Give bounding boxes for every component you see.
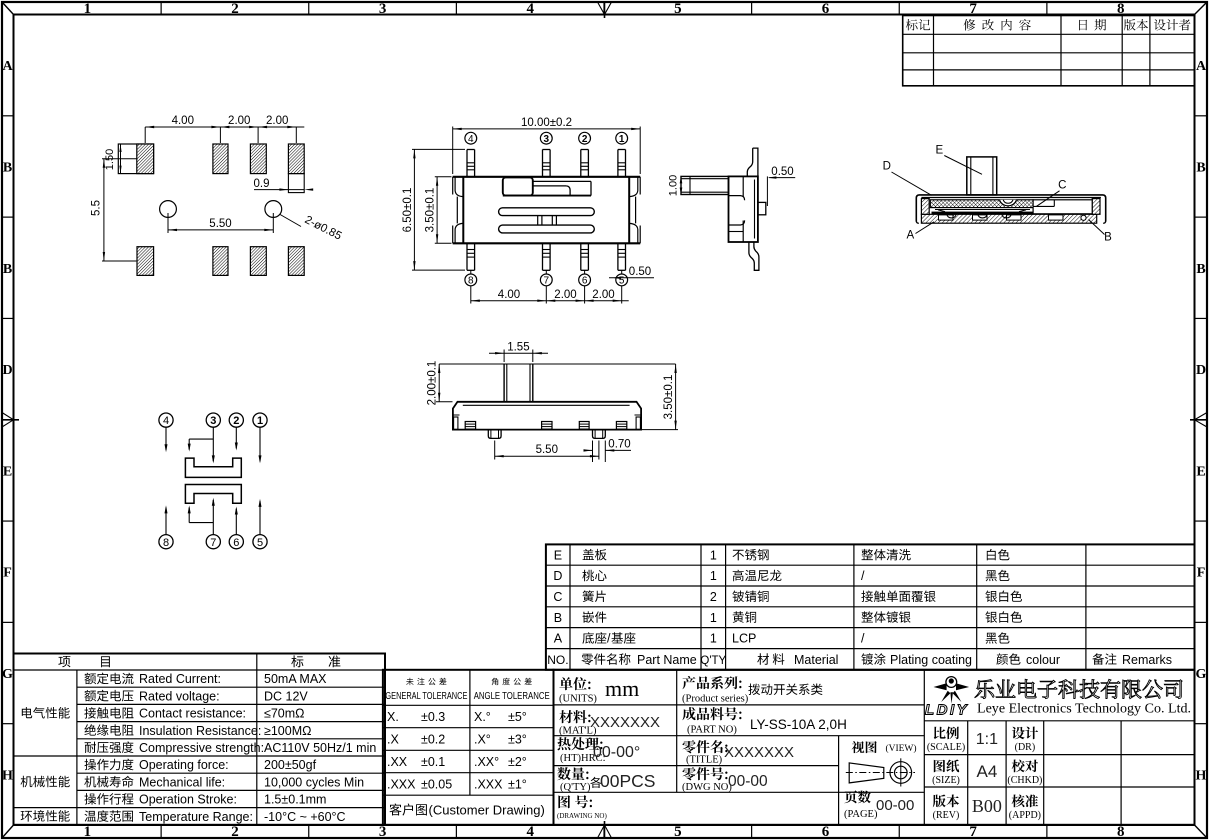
schematic wire pin5 [259, 499, 262, 535]
tolerance header: general [385, 678, 467, 702]
pin 8 (bottom lead) [467, 243, 475, 270]
svg-text:8: 8 [163, 537, 169, 549]
slot bridges [538, 216, 557, 226]
svg-text:B: B [3, 160, 12, 175]
svg-text:(CHKD): (CHKD) [1007, 775, 1042, 786]
schematic pin balloon 5 [253, 535, 267, 549]
svg-text:00-00: 00-00 [728, 773, 768, 790]
performance header [58, 655, 340, 667]
svg-text:Leye Electronics Technology Co: Leye Electronics Technology Co. Ltd. [977, 701, 1191, 716]
svg-text:7: 7 [210, 537, 216, 549]
svg-text:Material: Material [794, 653, 838, 667]
svg-text:4: 4 [526, 824, 534, 840]
base side wall right (hatched) [1092, 199, 1100, 215]
cell UNITS [559, 676, 639, 705]
svg-text:E: E [1196, 464, 1205, 479]
svg-text:C: C [553, 590, 562, 604]
svg-text:±0.1: ±0.1 [421, 755, 445, 769]
slider knob (top view) [503, 177, 533, 195]
svg-text:B: B [554, 611, 562, 625]
svg-text:3: 3 [379, 824, 387, 840]
svg-text:1: 1 [619, 134, 625, 145]
dimension 10.00&#177;0.2 (body width) [453, 117, 641, 174]
svg-text:1.00: 1.00 [668, 175, 680, 196]
dimension 3.50&#177;0.1 (body height) [424, 177, 451, 244]
terminal bottom (side, gull bend) [749, 242, 759, 270]
svg-text:(VIEW): (VIEW) [885, 743, 916, 754]
pin 3 (top lead) [543, 150, 551, 177]
schematic wire pin7 [188, 498, 215, 535]
svg-text:.X°: .X° [474, 733, 491, 747]
svg-text:Rated Current:: Rated Current: [139, 672, 221, 686]
front gull lead 4 [616, 422, 626, 430]
side mounting boss [758, 202, 766, 214]
svg-text:±0.2: ±0.2 [421, 733, 445, 747]
tolerance header: angle [474, 678, 550, 702]
svg-text:-10°C ~ +60°C: -10°C ~ +60°C [264, 810, 346, 824]
hole H1 [160, 201, 177, 218]
svg-text:(PART NO): (PART NO) [687, 725, 737, 736]
pin 3 number balloon [540, 132, 552, 145]
cell MATL [559, 710, 660, 736]
performance row 4 [84, 724, 311, 738]
tolerance row 3 [387, 755, 527, 769]
svg-text:(SCALE): (SCALE) [927, 742, 965, 753]
svg-text:Mechanical life:: Mechanical life: [139, 775, 225, 789]
svg-text:G: G [2, 667, 13, 682]
svg-text:50mA MAX: 50mA MAX [264, 672, 327, 686]
pad P5 bottom [137, 247, 154, 276]
performance row 2 [85, 689, 309, 703]
cell Product series [682, 676, 823, 705]
svg-text:/: / [861, 569, 865, 583]
dimension 5.50 (hole spacing) [168, 213, 273, 233]
BOM row E cover [554, 548, 1010, 562]
svg-text:Operating force:: Operating force: [139, 758, 229, 772]
svg-text:(UNITS): (UNITS) [559, 694, 597, 705]
schematic pin balloon 3 [206, 413, 220, 427]
svg-text:6: 6 [582, 276, 588, 287]
schematic wire pin2 [235, 427, 238, 450]
svg-text:AC110V 50Hz/1 min: AC110V 50Hz/1 min [264, 741, 376, 755]
label E + leader [935, 145, 982, 175]
svg-text:0.70: 0.70 [608, 439, 630, 451]
logo cell [925, 677, 969, 719]
svg-text:1: 1 [710, 548, 717, 562]
svg-text:2: 2 [231, 1, 239, 17]
svg-text:3: 3 [379, 1, 387, 17]
svg-text:A: A [2, 59, 13, 74]
cell CHKD [1007, 760, 1042, 787]
logo Chinese company name [975, 679, 1182, 698]
svg-text:(DWG NO): (DWG NO) [682, 782, 732, 793]
svg-text:2: 2 [582, 134, 588, 145]
pad P1 top (with white extension) [118, 144, 153, 174]
svg-text:Temperature Range:: Temperature Range: [139, 810, 253, 824]
svg-text:X.: X. [387, 710, 399, 724]
extension line knob top level [439, 363, 675, 365]
actuator knob (front) [504, 364, 533, 402]
revision header 设计者 [1154, 19, 1190, 31]
front gull lead 1 [465, 422, 475, 430]
dimension 0.70 (post width) [584, 439, 632, 462]
svg-text:XXXXXXX: XXXXXXX [590, 714, 660, 731]
dimension 0.9 (pad width) [254, 178, 314, 191]
dimension 2.00&#177;0.1 (front left) [427, 361, 453, 406]
svg-text:8: 8 [1117, 824, 1125, 840]
title block [554, 670, 1195, 825]
contact slot 2 [499, 225, 595, 233]
switch body (side profile) [729, 176, 758, 242]
svg-text:D: D [2, 363, 12, 378]
dimension 5.5 (row spacing, left) [91, 159, 137, 261]
dimension 0.50 (terminal offset, side) [767, 166, 795, 206]
cover (section, part D outline) [916, 195, 1105, 223]
svg-text:D: D [1196, 363, 1206, 378]
cell DWG NO [682, 767, 768, 793]
cell PART NO [682, 707, 847, 735]
svg-text:E: E [935, 145, 943, 157]
svg-text:2: 2 [233, 415, 239, 427]
svg-text:colour: colour [1026, 653, 1060, 667]
revision header 标记 [906, 19, 930, 30]
svg-text:A: A [554, 632, 563, 646]
pin 4 (top lead) [467, 150, 475, 177]
svg-text:10,000 cycles Min: 10,000 cycles Min [264, 775, 364, 789]
pad P6 bottom [213, 247, 228, 276]
label B + leader [1089, 220, 1113, 244]
svg-text:A: A [906, 230, 914, 242]
svg-text:Part Name: Part Name [637, 653, 697, 667]
svg-text:(Q'TY): (Q'TY) [560, 782, 591, 793]
svg-text:C: C [1058, 180, 1066, 192]
cell SCALE [927, 727, 998, 754]
pin 1 number balloon [616, 132, 628, 145]
dimension 1.50 (pad height) [104, 144, 122, 174]
schematic pin balloon 2 [229, 413, 243, 427]
svg-text:2.00±0.1: 2.00±0.1 [427, 361, 439, 406]
schematic wire pin4 [165, 427, 168, 452]
dimension 4.00 / 2.00 / 2.00 (pin pitch bottom) [471, 289, 629, 302]
svg-text:Plating coating: Plating coating [890, 653, 972, 667]
pin 5 number balloon [616, 274, 628, 287]
svg-text:(PAGE): (PAGE) [844, 809, 878, 820]
locating post right [593, 430, 606, 439]
end foot right [635, 415, 642, 429]
performance row 6 [85, 758, 317, 772]
svg-text:F: F [1197, 566, 1206, 581]
pin 5 (bottom lead) [618, 243, 626, 270]
svg-text:≤70mΩ: ≤70mΩ [264, 707, 305, 721]
svg-text:10.00±0.2: 10.00±0.2 [521, 117, 572, 129]
tolerance row 1 [387, 710, 527, 724]
svg-text:.XX°: .XX° [474, 755, 499, 769]
svg-text:8: 8 [1117, 1, 1125, 17]
svg-text:5: 5 [257, 537, 263, 549]
performance spec table [14, 654, 386, 825]
dimension 3.50&#177;0.1 (front right) [642, 364, 679, 430]
pin 2 (top lead) [581, 150, 589, 177]
cell HT HRC [557, 737, 640, 764]
leader 2-&#248;0.85 (hole callout) [280, 214, 343, 243]
svg-text:5.50: 5.50 [536, 444, 558, 456]
svg-text:LDIY: LDIY [925, 702, 969, 719]
svg-text:5.50: 5.50 [209, 218, 231, 230]
svg-text:1:1: 1:1 [976, 731, 998, 748]
svg-text:.XX: .XX [387, 755, 408, 769]
svg-text:.X: .X [387, 733, 399, 747]
svg-text:E: E [554, 548, 562, 562]
pad P8 bottom [288, 247, 304, 276]
performance row 7 [84, 775, 364, 789]
front gull lead 2 [542, 422, 552, 430]
svg-text:Contact resistance:: Contact resistance: [139, 707, 246, 721]
svg-text:G: G [1196, 667, 1207, 682]
svg-text:GENERAL TOLERANCE: GENERAL TOLERANCE [385, 690, 467, 702]
contact strip C (section) [932, 210, 1034, 218]
svg-text:Operation Stroke:: Operation Stroke: [139, 793, 237, 807]
contact slot 1 [499, 208, 595, 216]
dimension 6.50&#177;0.1 (pin span) [402, 149, 465, 270]
svg-text:00PCS: 00PCS [600, 771, 655, 791]
pin 1 (top lead) [618, 150, 626, 177]
cavity and spring area (section right) [1033, 200, 1092, 214]
cell QTY [557, 767, 655, 793]
svg-text:(Product series): (Product series) [682, 694, 749, 705]
category environmental [21, 810, 70, 822]
revision history table [903, 16, 1195, 86]
BOM row B insert [554, 611, 1022, 625]
schematic pin balloon 1 [253, 413, 267, 427]
svg-text:5: 5 [674, 1, 682, 17]
BOM header row [547, 653, 1172, 667]
BOM row C spring [553, 590, 1022, 604]
svg-text:≥100MΩ: ≥100MΩ [264, 724, 311, 738]
svg-text:4.00: 4.00 [498, 289, 520, 301]
svg-text:X.°: X.° [474, 710, 491, 724]
svg-text:4: 4 [468, 134, 474, 145]
pad P4 lower extension (0.9 ref) [288, 174, 304, 193]
pin 2 number balloon [579, 132, 591, 145]
cell PAGE [844, 790, 914, 820]
svg-text:E: E [3, 464, 12, 479]
svg-text:1.5±0.1mm: 1.5±0.1mm [264, 793, 326, 807]
revision header 日期 [1079, 19, 1106, 30]
slider travel area [503, 181, 591, 195]
schematic wire pin8 [165, 505, 168, 534]
dimension 1.00 (stem thickness) [668, 175, 683, 196]
terminal top (side, gull bend) [747, 148, 758, 176]
cell APPD [1009, 795, 1041, 822]
svg-text:2.00: 2.00 [228, 115, 250, 127]
svg-text:7: 7 [544, 276, 550, 287]
svg-text:1: 1 [84, 824, 92, 840]
performance row 5 [85, 741, 377, 755]
svg-text:6: 6 [233, 537, 239, 549]
svg-text:.XXX: .XXX [474, 778, 503, 792]
schematic wire pin1 [259, 427, 262, 463]
svg-text:ANGLE TOLERANCE: ANGLE TOLERANCE [474, 690, 550, 702]
tolerance row 4 [387, 778, 527, 792]
actuator knob E (section) [967, 157, 997, 195]
svg-text:(REV): (REV) [933, 810, 960, 821]
revision header 修改内容 [964, 19, 1031, 31]
svg-text:3: 3 [210, 415, 216, 427]
schematic wire pin3 [188, 427, 215, 463]
BOM row A base [554, 632, 1010, 646]
svg-text:1: 1 [84, 1, 92, 17]
svg-text:(TITLE): (TITLE) [686, 755, 723, 766]
pad P7 bottom [250, 247, 266, 276]
svg-text:(SIZE): (SIZE) [932, 775, 960, 786]
cell SIZE [932, 760, 997, 787]
svg-text:±3°: ±3° [508, 733, 527, 747]
cell TITLE [682, 740, 794, 765]
svg-text:3: 3 [544, 134, 550, 145]
svg-text:A4: A4 [977, 762, 998, 781]
schematic pin balloon 4 [159, 413, 173, 427]
svg-text:2: 2 [231, 824, 239, 840]
svg-text:4: 4 [526, 1, 534, 17]
front gull lead 3 [579, 422, 589, 430]
svg-text:(APPD): (APPD) [1009, 810, 1041, 821]
svg-text:6: 6 [822, 1, 830, 17]
svg-text:5: 5 [674, 824, 682, 840]
svg-text:NO.: NO. [547, 653, 568, 667]
customer drawing cell [390, 803, 545, 818]
title block right grid [924, 721, 1194, 825]
pad P3 top [250, 144, 266, 174]
BOM row D heart [553, 569, 1009, 583]
svg-text:1: 1 [710, 632, 717, 646]
svg-text:3.50±0.1: 3.50±0.1 [663, 375, 675, 420]
svg-text:B: B [3, 262, 12, 277]
svg-text:/: / [861, 632, 865, 646]
category electrical [22, 707, 70, 719]
svg-text:0.50: 0.50 [629, 266, 651, 278]
cell VIEW [846, 741, 917, 787]
svg-text:mm: mm [605, 676, 639, 701]
dimension 4.00 / 2.00 / 2.00 (pad pitch, top) [145, 115, 304, 143]
svg-text:B00: B00 [972, 796, 1002, 816]
svg-text:1.50: 1.50 [104, 149, 116, 170]
svg-text:XXXXXXX: XXXXXXX [724, 744, 794, 761]
base A (hatched, section) [921, 214, 1096, 223]
schematic pin balloon 8 [159, 535, 173, 549]
svg-text:D: D [553, 569, 562, 583]
svg-text:4.00: 4.00 [172, 115, 194, 127]
svg-text:2.00: 2.00 [592, 289, 614, 301]
svg-text:1: 1 [710, 569, 717, 583]
svg-text:Rated voltage:: Rated voltage: [139, 689, 220, 703]
switch body outline (top view) [453, 177, 641, 244]
performance row 9 [85, 810, 346, 824]
svg-text:00-00: 00-00 [876, 797, 914, 814]
revision header 版本 [1124, 19, 1148, 31]
svg-text:±0.3: ±0.3 [421, 710, 445, 724]
svg-text:LCP: LCP [732, 632, 756, 646]
category mechanical [21, 776, 70, 788]
svg-text:0.9: 0.9 [254, 178, 270, 190]
svg-text:(DRAWING NO): (DRAWING NO) [557, 812, 607, 820]
pad P2 top [213, 144, 228, 174]
svg-text:±2°: ±2° [508, 755, 527, 769]
dimension 1.55 (knob width) [489, 341, 548, 362]
svg-text:(Customer Drawing): (Customer Drawing) [429, 803, 545, 818]
svg-text:(DR): (DR) [1015, 742, 1036, 753]
svg-text:4: 4 [163, 415, 169, 427]
svg-text:8: 8 [468, 276, 474, 287]
svg-text:00-00°: 00-00° [593, 744, 640, 761]
label D + leader [883, 161, 932, 196]
svg-text:2.00: 2.00 [266, 115, 288, 127]
svg-text:D: D [883, 161, 891, 173]
svg-text:1: 1 [710, 611, 717, 625]
performance row 3 [84, 707, 304, 721]
performance row 8 [85, 793, 327, 807]
pin 8 number balloon [465, 274, 477, 287]
body outline (front) [453, 402, 641, 430]
svg-text:DC 12V: DC 12V [264, 689, 308, 703]
pin 6 (bottom lead) [581, 243, 589, 270]
svg-text:200±50gf: 200±50gf [264, 758, 317, 772]
svg-text:6.50±0.1: 6.50±0.1 [402, 188, 414, 233]
end foot left [453, 415, 460, 429]
base side wall left (hatched) [921, 199, 929, 215]
locating post left [488, 430, 501, 439]
svg-text:2: 2 [710, 590, 717, 604]
performance row 1 [85, 672, 328, 686]
svg-text:.XXX: .XXX [387, 778, 416, 792]
schematic pin balloon 6 [229, 535, 243, 549]
svg-text:1: 1 [257, 415, 263, 427]
svg-text:H: H [2, 768, 13, 783]
svg-text:6: 6 [822, 824, 830, 840]
svg-text:3.50±0.1: 3.50±0.1 [424, 188, 436, 233]
slider heart D (cross-hatched, section) [930, 200, 1033, 208]
svg-text:7: 7 [969, 824, 977, 840]
pad P4 top [288, 144, 304, 174]
svg-text:±1°: ±1° [508, 778, 527, 792]
dimension 5.50 (post spacing) [495, 441, 599, 460]
svg-text:7: 7 [969, 1, 977, 17]
svg-text:LY-SS-10A 2,0H: LY-SS-10A 2,0H [750, 717, 847, 732]
svg-text:Insulation Resistance:: Insulation Resistance: [139, 724, 261, 738]
pin 7 (bottom lead) [543, 243, 551, 270]
tolerance table [383, 670, 554, 825]
tolerance row 2 [387, 733, 527, 747]
pin 4 number balloon [465, 132, 477, 145]
label C + leader [1037, 180, 1067, 207]
hole H2 [265, 201, 282, 218]
cell DRAWING NO [557, 795, 607, 820]
svg-text:B: B [1196, 262, 1205, 277]
svg-text:A: A [1196, 59, 1207, 74]
schematic wire pin6 [235, 507, 238, 535]
svg-text:2.00: 2.00 [554, 289, 576, 301]
svg-text:F: F [3, 566, 12, 581]
svg-text:Remarks: Remarks [1122, 653, 1172, 667]
BOM parts table [546, 544, 1195, 669]
svg-text:/: / [607, 632, 611, 646]
svg-text:B: B [1104, 232, 1112, 244]
actuator stem (side) [681, 176, 729, 194]
pin 7 number balloon [540, 274, 552, 287]
svg-text:5.5: 5.5 [91, 200, 103, 216]
schematic pin balloon 7 [206, 535, 220, 549]
cell DR [1012, 727, 1038, 753]
label A + leader [906, 222, 934, 242]
